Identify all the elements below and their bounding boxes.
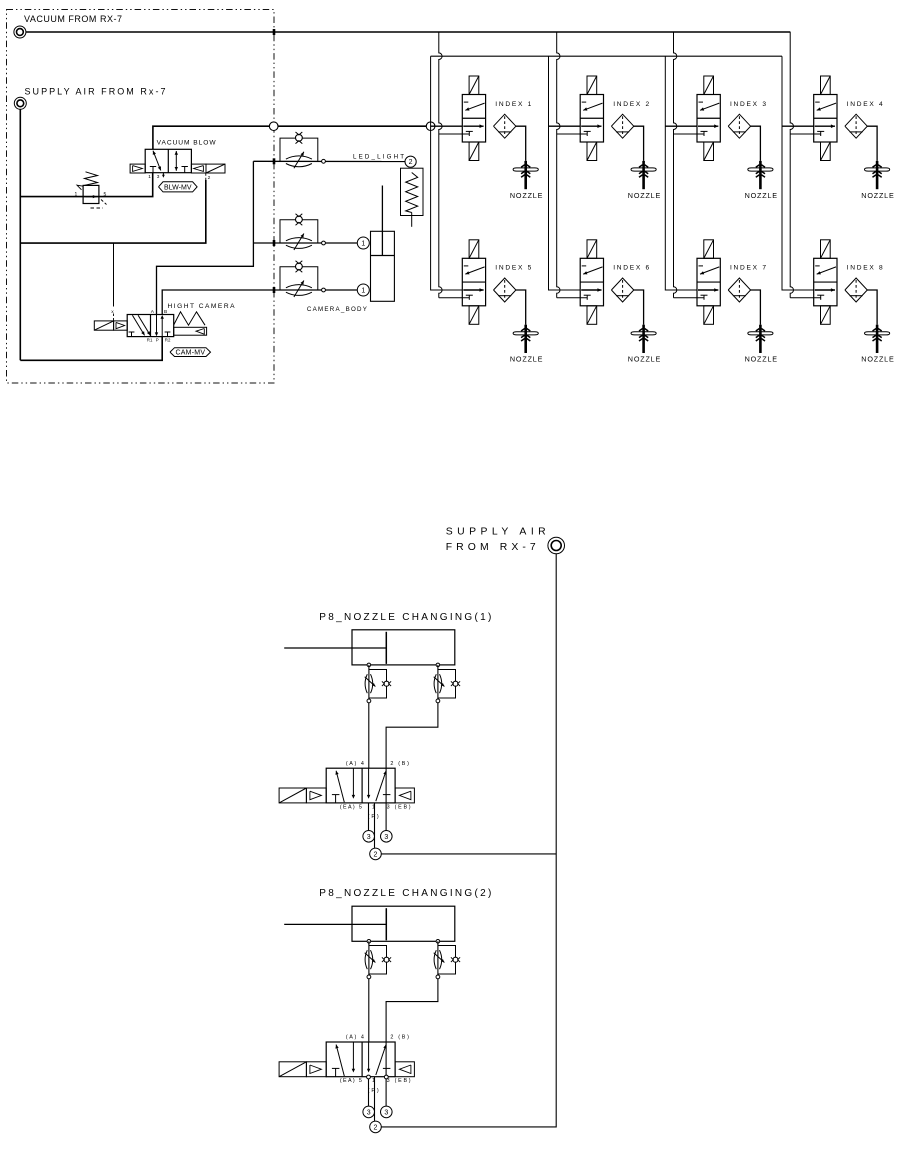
label x pilot port [111,310,114,315]
node supply connector (bottom) [548,537,565,554]
wire cap-end line P8_NOZZLE CHANGING(1) [386,703,438,768]
wire rod-end line P8_NOZZLE CHANGING(2) [368,979,370,1042]
wire vacuum drop column 3 [674,32,677,298]
wire vacuum bus [26,31,791,33]
svg-text:(EA) 5: (EA) 5 [340,804,362,810]
valve INDEX 7 [697,240,777,364]
marker retract line crossing [273,287,276,293]
svg-text:LED_LIGHT: LED_LIGHT [353,154,404,161]
wire vacuum to INDEX 4 port [790,133,821,135]
valve INDEX 1 [462,76,542,200]
svg-text:R1: R1 [147,338,153,343]
wire P to circled2 P8_NOZZLE CHANGING(2) [374,1077,376,1121]
wire camera extend line [253,242,357,244]
label VACUUM BLOW [157,140,217,147]
flow control valve P8_NOZZLE CHANGING(2) at x=437.9 [434,941,460,979]
flow control valve P8_NOZZLE CHANGING(1) at x=368.9 [365,665,391,703]
svg-text:NOZZLE: NOZZLE [861,191,894,200]
node SUPPLY AIR FROM Rx-7 connector [14,97,26,109]
wire vacuum drop column 2 [557,32,560,298]
valve CAM-MV (hight camera 5/2) [94,309,206,342]
svg-text:CAMERA_BODY: CAMERA_BODY [307,306,367,313]
flow control valve P8_NOZZLE CHANGING(2) at x=368.9 [365,941,391,979]
svg-text:1: 1 [361,288,365,295]
cylinder P8_NOZZLE CHANGING(1) [284,630,455,665]
node cylinder ports P8_NOZZLE CHANGING(1) [367,663,440,667]
node circled 2 P8_NOZZLE CHANGING(2) [370,1121,382,1133]
wire LED feed line [253,160,405,162]
marker vacuum bus dash-dot crossing [273,29,276,35]
wire supply drop column 4 [782,56,814,290]
svg-text:3: 3 [157,174,160,180]
svg-text:2 (B): 2 (B) [390,761,409,767]
svg-text:NOZZLE: NOZZLE [745,355,778,364]
actuator LED_LIGHT (spring) [401,168,424,227]
flow control valve SC1 (LED) [280,132,325,168]
wire CAM-MV port A to LED junction [157,161,254,314]
valve INDEX 6 [580,240,660,364]
wire vacuum to INDEX 6 port [557,297,588,299]
svg-text:VACUUM BLOW: VACUUM BLOW [157,140,217,147]
label P8_NOZZLE CHANGING(2) [319,888,491,899]
wire supply to section1 [381,853,556,855]
valve INDEX 3 [697,76,777,200]
marker extend line crossing [273,240,276,246]
svg-text:3: 3 [367,1109,371,1116]
svg-text:HIGHT CAMERA: HIGHT CAMERA [168,303,236,310]
svg-text:2: 2 [409,159,413,166]
flow control valve SC2 (camera extend) [280,214,325,250]
valve INDEX 2 [580,76,660,200]
marker LED line crossing [273,158,276,164]
node circled 3 pair P8_NOZZLE CHANGING(1) [363,831,392,843]
svg-text:NOZZLE: NOZZLE [510,191,543,200]
svg-text:2: 2 [208,175,211,181]
svg-text:3: 3 [384,834,388,841]
wire supply bottom line to CAM-MV port P [20,337,162,361]
svg-text:BLW-MV: BLW-MV [164,184,192,191]
wire P to circled2 P8_NOZZLE CHANGING(1) [374,803,376,848]
svg-text:P8_NOZZLE CHANGING(2): P8_NOZZLE CHANGING(2) [319,888,491,899]
wire CAM-MV port B to retract line [162,290,357,315]
svg-text:2: 2 [374,851,378,858]
cylinder P8_NOZZLE CHANGING(2) [284,906,455,941]
svg-text:2: 2 [374,1124,378,1131]
wire EB line P8_NOZZLE CHANGING(2) [385,1042,387,1106]
regulator [75,172,107,208]
wire rod-end line P8_NOZZLE CHANGING(1) [368,703,370,768]
node circled 3 pair P8_NOZZLE CHANGING(2) [363,1106,392,1118]
wire supply drop column 1 [431,56,463,290]
wire supply drop column 2 [549,56,581,290]
wire vacuum to INDEX 5 port [439,297,470,299]
wire vacuum drop column 1 [439,32,442,298]
node circled 2 LED_LIGHT [405,156,416,167]
wire supply to regulator to BLW-MV port1 [20,173,152,197]
svg-text:(EA) 5: (EA) 5 [340,1078,362,1084]
svg-text:2 (B): 2 (B) [390,1035,409,1041]
wire BLW-MV output main line [153,126,426,149]
wire supply drop from connector [19,109,21,360]
valve BLW-MV (vacuum blow 3/2) [130,149,225,180]
wire main feed INDEX 4 [782,125,814,127]
svg-text:(P): (P) [368,814,379,820]
svg-text:(A) 4: (A) 4 [346,1035,364,1041]
label CAM-MV tag [170,348,211,357]
svg-text:CAM-MV: CAM-MV [176,350,206,357]
label SUPPLY AIR (bottom) [446,526,546,537]
svg-text:NOZZLE: NOZZLE [745,191,778,200]
svg-text:3: 3 [367,834,371,841]
label BLW-MV tag [159,182,198,192]
label HIGHT CAMERA [168,303,236,310]
wire vacuum to INDEX 7 port [674,297,705,299]
valve P8_NOZZLE CHANGING(2) 5/2 solenoid [279,1035,414,1094]
svg-text:P: P [156,338,159,343]
svg-text:1: 1 [75,192,78,198]
wire vacuum to INDEX 8 port [790,297,821,299]
wire supply bus [431,55,782,57]
wire supply drop column 3 [665,56,697,290]
wire EA to circled3 P8_NOZZLE CHANGING(1) [368,803,370,830]
svg-text:NOZZLE: NOZZLE [628,191,661,200]
wire vacuum drop column 4 [790,32,793,298]
label P8_NOZZLE CHANGING(1) [319,612,491,623]
wire main feed INDEX 1 [431,125,463,127]
svg-text:SUPPLY AIR: SUPPLY AIR [446,526,546,537]
svg-text:NOZZLE: NOZZLE [628,355,661,364]
wire BLW-MV pilot dashed segment [205,173,207,180]
wire vacuum to INDEX 1 port [439,133,470,135]
svg-text:P8_NOZZLE CHANGING(1): P8_NOZZLE CHANGING(1) [319,612,491,623]
valve P8_NOZZLE CHANGING(1) 5/2 solenoid [279,761,414,820]
wire EA to circled3 P8_NOZZLE CHANGING(2) [368,1077,370,1106]
svg-text:(A) 4: (A) 4 [346,761,364,767]
label FROM RX-7 (bottom) [446,542,536,553]
node circled 1 upper port [357,237,369,249]
wire cap-end line P8_NOZZLE CHANGING(2) [386,979,438,1042]
flow control valve SC3 (camera retract) [280,261,325,297]
label LED_LIGHT [353,154,404,161]
svg-text:3: 3 [384,1109,388,1116]
label SUPPLY AIR FROM Rx-7 [25,87,166,97]
svg-text:NOZZLE: NOZZLE [510,355,543,364]
cylinder CAMERA_BODY [371,186,395,302]
svg-text:1: 1 [361,241,365,248]
label VACUUM FROM RX-7 [24,14,122,24]
flow control valve P8_NOZZLE CHANGING(1) at x=437.9 [434,665,460,703]
wire EB line P8_NOZZLE CHANGING(1) [385,768,387,830]
node cylinder ports P8_NOZZLE CHANGING(2) [367,940,440,944]
wire vacuum to INDEX 3 port [674,133,705,135]
wire supply branch to BLW-MV pilot port 2 [20,180,206,243]
svg-text:NOZZLE: NOZZLE [861,355,894,364]
svg-text:R2: R2 [165,338,171,343]
svg-text:(P): (P) [368,1088,379,1094]
label CAMERA_BODY [307,306,367,313]
wire bottom supply drop [381,554,556,1127]
svg-text:VACUUM FROM RX-7: VACUUM FROM RX-7 [24,14,122,24]
node section2 valve port circles [367,1075,389,1079]
valve INDEX 5 [462,240,542,364]
wire pilot X dashed [113,314,115,321]
wire main feed INDEX 2 [549,125,581,127]
label BLW-MV port 2 [208,175,211,181]
node junction circle at dash-dot border [269,122,278,131]
wire pilot X branch [113,243,115,306]
valve INDEX 8 [814,240,894,364]
svg-text:1: 1 [148,174,151,180]
wire vacuum to INDEX 2 port [557,133,588,135]
node circled 1 lower port [357,284,369,296]
svg-text:5: 5 [104,192,107,198]
node VACUUM FROM RX-7 connector [14,26,26,38]
wire main feed INDEX 3 [665,125,697,127]
node junction circle at column1 [426,122,435,131]
dash-dot enclosure box [7,10,275,384]
node circled 2 P8_NOZZLE CHANGING(1) [370,848,382,860]
valve INDEX 4 [814,76,894,200]
